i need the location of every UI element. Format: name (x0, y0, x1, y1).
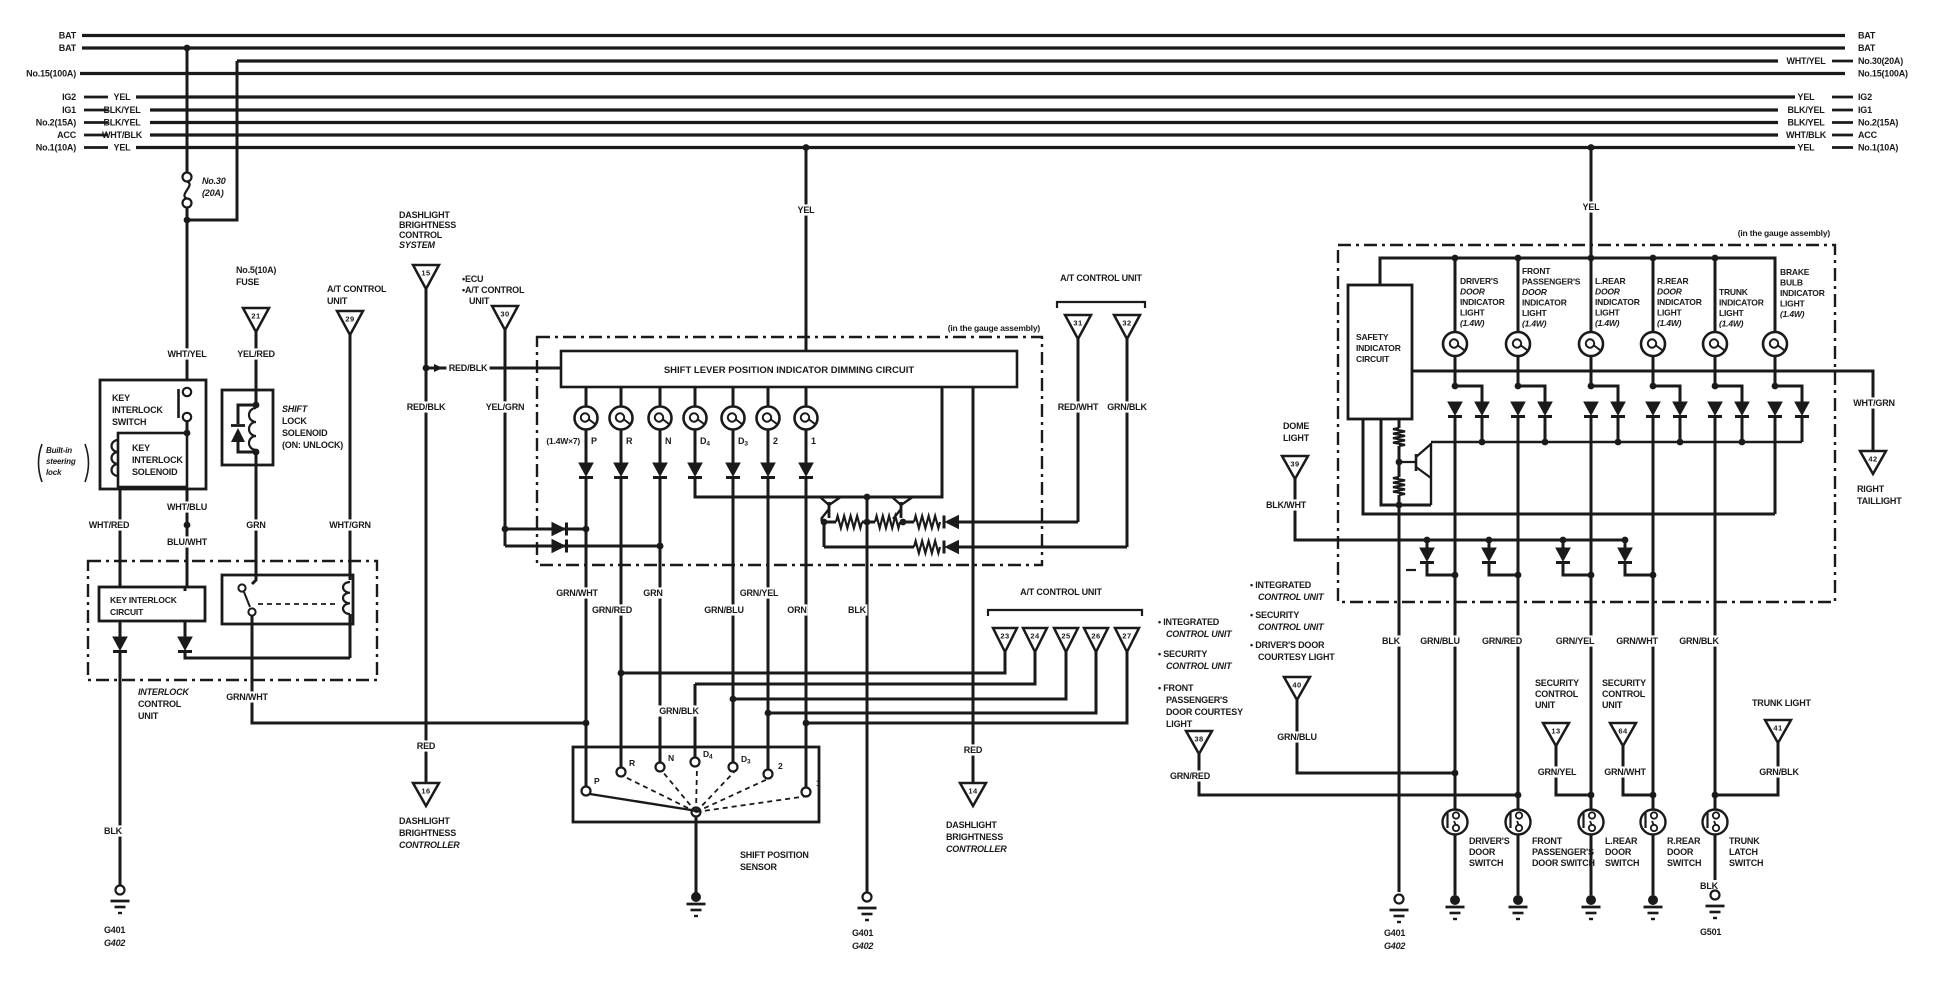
svg-text:DOOR COURTESY: DOOR COURTESY (1166, 707, 1243, 717)
svg-text:GRN/BLU: GRN/BLU (1277, 732, 1317, 742)
svg-text:CONTROL: CONTROL (399, 230, 443, 240)
svg-text:LIGHT: LIGHT (1595, 308, 1621, 318)
svg-text:INDICATOR: INDICATOR (1595, 297, 1640, 307)
svg-text:FRONT: FRONT (1532, 836, 1563, 846)
svg-text:LIGHT: LIGHT (1522, 308, 1548, 318)
svg-text:(1.4W): (1.4W) (1460, 318, 1485, 328)
svg-text:N: N (665, 436, 671, 446)
svg-text:BLU/WHT: BLU/WHT (167, 537, 208, 547)
svg-text:BLK/WHT: BLK/WHT (1266, 500, 1307, 510)
svg-text:DASHLIGHT: DASHLIGHT (946, 820, 997, 830)
svg-text:DOOR SWITCH: DOOR SWITCH (1532, 858, 1595, 868)
svg-text:1: 1 (816, 778, 821, 788)
svg-text:CONTROL UNIT: CONTROL UNIT (1166, 629, 1233, 639)
svg-text:BAT: BAT (1858, 43, 1876, 53)
svg-text:BAT: BAT (59, 31, 77, 41)
svg-text:38: 38 (1194, 735, 1203, 744)
svg-text:SENSOR: SENSOR (740, 862, 778, 872)
svg-text:GRN/WHT: GRN/WHT (1616, 636, 1658, 646)
svg-text:No.2(15A): No.2(15A) (36, 118, 76, 128)
svg-text:GRN: GRN (246, 520, 265, 530)
svg-text:steering: steering (46, 457, 76, 466)
svg-text:No.1(10A): No.1(10A) (36, 143, 76, 153)
svg-text:• FRONT: • FRONT (1158, 683, 1194, 693)
svg-text:LIGHT: LIGHT (1657, 308, 1683, 318)
svg-text:13: 13 (1551, 727, 1560, 736)
svg-text:CIRCUIT: CIRCUIT (1356, 354, 1390, 364)
svg-text:SWITCH: SWITCH (1729, 858, 1763, 868)
svg-text:LIGHT: LIGHT (1460, 308, 1486, 318)
svg-text:31: 31 (1073, 319, 1082, 328)
svg-text:DRIVER'S: DRIVER'S (1469, 836, 1510, 846)
svg-text:BAT: BAT (59, 43, 77, 53)
svg-text:GRN/WHT: GRN/WHT (1604, 767, 1646, 777)
svg-text:UNIT: UNIT (327, 296, 348, 306)
svg-text:INTERLOCK: INTERLOCK (132, 455, 183, 465)
svg-text:GRN/YEL: GRN/YEL (740, 588, 779, 598)
svg-text:BRIGHTNESS: BRIGHTNESS (399, 828, 456, 838)
svg-text:BLK: BLK (104, 826, 123, 836)
svg-text:No.5(10A): No.5(10A) (236, 265, 276, 275)
svg-text:R: R (629, 758, 635, 768)
svg-text:A/T CONTROL: A/T CONTROL (327, 284, 387, 294)
svg-text:BRIGHTNESS: BRIGHTNESS (946, 832, 1003, 842)
svg-text:G401: G401 (852, 928, 873, 938)
svg-text:G501: G501 (1700, 927, 1721, 937)
svg-text:30: 30 (500, 310, 509, 319)
svg-text:(in the gauge assembly): (in the gauge assembly) (948, 323, 1041, 333)
svg-text:CONTROL UNIT: CONTROL UNIT (1166, 661, 1233, 671)
svg-text:FRONT: FRONT (1522, 266, 1551, 276)
svg-text:WHT/GRN: WHT/GRN (1853, 398, 1895, 408)
svg-text:TRUNK: TRUNK (1719, 287, 1749, 297)
svg-text:YEL/GRN: YEL/GRN (486, 402, 525, 412)
svg-text:GRN/RED: GRN/RED (1170, 771, 1211, 781)
svg-text:RED: RED (964, 745, 983, 755)
svg-text:RED/BLK: RED/BLK (407, 402, 446, 412)
svg-text:BULB: BULB (1780, 278, 1803, 288)
svg-text:UNIT: UNIT (1602, 700, 1623, 710)
svg-text:GRN/WHT: GRN/WHT (226, 692, 268, 702)
svg-text:DOME: DOME (1283, 421, 1309, 431)
svg-text:• DRIVER'S DOOR: • DRIVER'S DOOR (1250, 640, 1325, 650)
svg-text:IG1: IG1 (1858, 105, 1872, 115)
svg-text:• SECURITY: • SECURITY (1250, 610, 1299, 620)
svg-text:WHT/GRN: WHT/GRN (329, 520, 371, 530)
svg-text:2: 2 (778, 761, 783, 771)
svg-text:INTERLOCK: INTERLOCK (138, 687, 190, 697)
svg-text:KEY: KEY (112, 393, 130, 403)
svg-text:SWITCH: SWITCH (1667, 858, 1701, 868)
svg-text:P: P (591, 436, 597, 446)
svg-text:LATCH: LATCH (1729, 847, 1758, 857)
svg-text:23: 23 (1000, 632, 1009, 641)
svg-text:PASSENGER'S: PASSENGER'S (1522, 277, 1581, 287)
svg-text:UNIT: UNIT (138, 711, 159, 721)
svg-text:A/T CONTROL UNIT: A/T CONTROL UNIT (1020, 587, 1102, 597)
svg-text:GRN/RED: GRN/RED (1482, 636, 1523, 646)
svg-text:BLK/YEL: BLK/YEL (103, 105, 141, 115)
svg-text:CONTROL: CONTROL (138, 699, 182, 709)
svg-text:LIGHT: LIGHT (1283, 433, 1310, 443)
svg-text:ACC: ACC (1858, 130, 1878, 140)
svg-text:No.1(10A): No.1(10A) (1858, 143, 1898, 153)
svg-text:(1.4W): (1.4W) (1719, 319, 1744, 329)
svg-text:GRN/BLU: GRN/BLU (1420, 636, 1460, 646)
svg-text:WHT/YEL: WHT/YEL (1786, 56, 1826, 66)
svg-text:SOLENOID: SOLENOID (132, 467, 178, 477)
svg-text:YEL: YEL (1798, 143, 1816, 153)
svg-text:SHIFT LEVER POSITION INDICATOR: SHIFT LEVER POSITION INDICATOR DIMMING C… (664, 365, 915, 376)
svg-text:GRN/BLK: GRN/BLK (1107, 402, 1147, 412)
svg-text:YEL: YEL (798, 205, 816, 215)
svg-text:• INTEGRATED: • INTEGRATED (1250, 580, 1312, 590)
svg-text:(ON: UNLOCK): (ON: UNLOCK) (282, 440, 343, 450)
svg-text:41: 41 (1773, 724, 1782, 733)
svg-text:SWITCH: SWITCH (112, 417, 146, 427)
svg-text:BRAKE: BRAKE (1780, 267, 1810, 277)
svg-text:INDICATOR: INDICATOR (1719, 298, 1764, 308)
svg-text:CONTROL UNIT: CONTROL UNIT (1258, 592, 1325, 602)
svg-text:• INTEGRATED: • INTEGRATED (1158, 617, 1220, 627)
svg-text:DOOR: DOOR (1460, 287, 1486, 297)
svg-text:1: 1 (811, 436, 816, 446)
svg-text:DOOR: DOOR (1469, 847, 1496, 857)
svg-text:15: 15 (421, 269, 430, 278)
svg-text:R: R (626, 436, 633, 446)
svg-text:DASHLIGHT: DASHLIGHT (399, 210, 450, 220)
svg-text:(in the gauge assembly): (in the gauge assembly) (1738, 228, 1831, 238)
svg-text:RIGHT: RIGHT (1857, 484, 1885, 494)
svg-text:YEL/RED: YEL/RED (237, 349, 275, 359)
svg-text:WHT/BLU: WHT/BLU (167, 502, 207, 512)
svg-text:N: N (668, 753, 674, 763)
svg-text:14: 14 (968, 787, 978, 796)
svg-text:YEL: YEL (114, 92, 132, 102)
svg-text:INDICATOR: INDICATOR (1657, 297, 1702, 307)
svg-text:FUSE: FUSE (236, 277, 259, 287)
svg-text:SHIFT: SHIFT (282, 404, 309, 414)
svg-text:BLK/YEL: BLK/YEL (1787, 118, 1825, 128)
svg-text:TRUNK LIGHT: TRUNK LIGHT (1752, 698, 1811, 708)
svg-text:INDICATOR: INDICATOR (1780, 288, 1825, 298)
svg-text:No.30: No.30 (202, 176, 226, 186)
svg-text:P: P (594, 776, 600, 786)
svg-text:DOOR: DOOR (1522, 287, 1548, 297)
svg-text:YEL: YEL (114, 143, 132, 153)
svg-text:BLK: BLK (1382, 636, 1401, 646)
svg-text:G402: G402 (104, 938, 125, 948)
svg-text:DOOR: DOOR (1595, 287, 1621, 297)
svg-text:PASSENGER'S: PASSENGER'S (1166, 695, 1228, 705)
svg-text:INTERLOCK: INTERLOCK (112, 405, 163, 415)
svg-text:IG2: IG2 (62, 92, 76, 102)
svg-text:CONTROLLER: CONTROLLER (399, 840, 460, 850)
svg-text:INDICATOR: INDICATOR (1460, 297, 1505, 307)
svg-text:L.REAR: L.REAR (1605, 836, 1638, 846)
svg-text:YEL: YEL (1583, 202, 1601, 212)
svg-text:lock: lock (46, 468, 62, 477)
svg-text:32: 32 (1122, 319, 1131, 328)
svg-text:BRIGHTNESS: BRIGHTNESS (399, 220, 456, 230)
svg-text:Built-in: Built-in (46, 446, 72, 455)
svg-text:R.REAR: R.REAR (1657, 276, 1688, 286)
svg-text:G401: G401 (104, 925, 125, 935)
svg-text:LIGHT: LIGHT (1166, 719, 1193, 729)
svg-text:PASSENGER'S: PASSENGER'S (1532, 847, 1594, 857)
svg-text:GRN: GRN (643, 588, 662, 598)
svg-text:CONTROL: CONTROL (1535, 689, 1579, 699)
svg-text:SYSTEM: SYSTEM (399, 240, 436, 250)
svg-text:SWITCH: SWITCH (1469, 858, 1503, 868)
svg-text:BLK/YEL: BLK/YEL (103, 118, 141, 128)
svg-text:42: 42 (1868, 455, 1877, 464)
svg-text:R.REAR: R.REAR (1667, 836, 1701, 846)
svg-text:29: 29 (345, 315, 354, 324)
svg-text:GRN/BLK: GRN/BLK (1759, 767, 1799, 777)
svg-text:IG2: IG2 (1858, 92, 1872, 102)
svg-text:BAT: BAT (1858, 31, 1876, 41)
svg-text:2: 2 (773, 436, 778, 446)
svg-text:TRUNK: TRUNK (1729, 836, 1760, 846)
svg-text:ORN: ORN (787, 605, 806, 615)
svg-text:DOOR: DOOR (1605, 847, 1632, 857)
svg-text:WHT/RED: WHT/RED (89, 520, 130, 530)
svg-text:64: 64 (1618, 727, 1628, 736)
svg-text:GRN/YEL: GRN/YEL (1556, 636, 1595, 646)
svg-text:(1.4W×7): (1.4W×7) (546, 436, 580, 446)
svg-text:No.30(20A): No.30(20A) (1858, 56, 1903, 66)
svg-text:(1.4W): (1.4W) (1595, 318, 1620, 328)
svg-text:24: 24 (1030, 632, 1040, 641)
svg-text:RED/WHT: RED/WHT (1058, 402, 1099, 412)
svg-text:LIGHT: LIGHT (1780, 299, 1806, 309)
svg-text:INDICATOR: INDICATOR (1522, 298, 1567, 308)
svg-text:SECURITY: SECURITY (1602, 678, 1646, 688)
svg-text:CONTROL UNIT: CONTROL UNIT (1258, 622, 1325, 632)
svg-text:(1.4W): (1.4W) (1657, 318, 1682, 328)
svg-text:RED/BLK: RED/BLK (449, 363, 488, 373)
svg-text:SOLENOID: SOLENOID (282, 428, 328, 438)
svg-text:•A/T CONTROL: •A/T CONTROL (462, 285, 525, 295)
svg-text:39: 39 (1290, 460, 1299, 469)
svg-text:RED: RED (417, 741, 436, 751)
svg-text:KEY INTERLOCK: KEY INTERLOCK (110, 595, 178, 605)
svg-text:GRN/WHT: GRN/WHT (556, 588, 598, 598)
svg-text:WHT/BLK: WHT/BLK (102, 130, 143, 140)
svg-text:27: 27 (1122, 632, 1131, 641)
svg-text:16: 16 (421, 787, 430, 796)
svg-text:LOCK: LOCK (282, 416, 307, 426)
svg-text:BLK/YEL: BLK/YEL (1787, 105, 1825, 115)
svg-text:A/T CONTROL UNIT: A/T CONTROL UNIT (1060, 273, 1142, 283)
svg-text:INDICATOR: INDICATOR (1356, 343, 1401, 353)
svg-text:GRN/RED: GRN/RED (592, 605, 633, 615)
svg-text:LIGHT: LIGHT (1719, 308, 1745, 318)
svg-text:KEY: KEY (132, 443, 150, 453)
svg-text:WHT/YEL: WHT/YEL (167, 349, 207, 359)
svg-text:IG1: IG1 (62, 105, 76, 115)
svg-text:DASHLIGHT: DASHLIGHT (399, 816, 450, 826)
svg-text:COURTESY LIGHT: COURTESY LIGHT (1258, 652, 1335, 662)
svg-text:DOOR: DOOR (1657, 287, 1683, 297)
svg-text:(1.4W): (1.4W) (1522, 319, 1547, 329)
svg-text:(1.4W): (1.4W) (1780, 309, 1805, 319)
svg-text:No.15(100A): No.15(100A) (26, 69, 76, 79)
svg-text:L.REAR: L.REAR (1595, 276, 1626, 286)
svg-text:DRIVER'S: DRIVER'S (1460, 276, 1499, 286)
svg-text:25: 25 (1061, 632, 1070, 641)
svg-text:•ECU: •ECU (462, 274, 483, 284)
svg-text:(20A): (20A) (202, 188, 224, 198)
svg-text:G401: G401 (1384, 928, 1405, 938)
svg-text:SWITCH: SWITCH (1605, 858, 1639, 868)
svg-text:26: 26 (1091, 632, 1100, 641)
svg-text:TAILLIGHT: TAILLIGHT (1857, 496, 1902, 506)
svg-text:• SECURITY: • SECURITY (1158, 649, 1207, 659)
svg-text:CONTROLLER: CONTROLLER (946, 844, 1007, 854)
svg-text:40: 40 (1292, 681, 1301, 690)
svg-text:WHT/BLK: WHT/BLK (1786, 130, 1827, 140)
svg-text:G402: G402 (852, 941, 873, 951)
svg-text:BLK: BLK (848, 605, 867, 615)
svg-text:CONTROL: CONTROL (1602, 689, 1646, 699)
svg-text:No.2(15A): No.2(15A) (1858, 118, 1898, 128)
svg-text:21: 21 (251, 312, 260, 321)
svg-text:DOOR: DOOR (1667, 847, 1694, 857)
svg-text:CIRCUIT: CIRCUIT (110, 607, 144, 617)
svg-text:GRN/BLK: GRN/BLK (1679, 636, 1719, 646)
svg-text:UNIT: UNIT (1535, 700, 1556, 710)
svg-text:YEL: YEL (1798, 92, 1816, 102)
svg-text:ACC: ACC (57, 130, 77, 140)
svg-text:GRN/BLK: GRN/BLK (659, 706, 699, 716)
svg-text:SAFETY: SAFETY (1356, 332, 1389, 342)
svg-text:SHIFT POSITION: SHIFT POSITION (740, 850, 809, 860)
svg-text:No.15(100A): No.15(100A) (1858, 69, 1908, 79)
svg-text:GRN/BLU: GRN/BLU (704, 605, 744, 615)
svg-text:UNIT: UNIT (469, 296, 490, 306)
svg-text:G402: G402 (1384, 941, 1405, 951)
svg-text:SECURITY: SECURITY (1535, 678, 1579, 688)
svg-text:GRN/YEL: GRN/YEL (1538, 767, 1577, 777)
